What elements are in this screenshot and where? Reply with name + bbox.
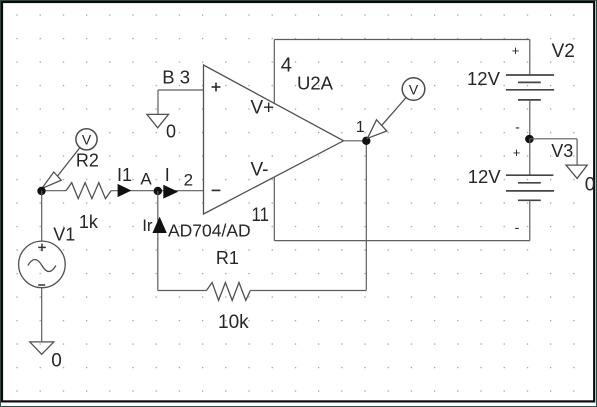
svg-text:I: I [165,165,170,185]
current marker I (arrow) [163,185,178,199]
svg-text:AD704/AD: AD704/AD [168,221,251,241]
label pin 2 [184,170,193,189]
wire: R2 right to pin 2 of op-amp (node A) [111,190,204,192]
label AD704/AD [168,221,251,241]
pin 4 wire (V+ supply) [273,40,275,103]
label I1 [117,165,132,185]
svg-text:1: 1 [356,119,365,136]
wire: R1 left segment [158,290,207,292]
voltage probe at output: lead line [382,98,406,126]
wire: junction to V3 net label [529,138,577,140]
svg-text:0: 0 [585,174,596,195]
sine source V1 - marker [38,284,45,286]
svg-text:B 3: B 3 [162,67,190,88]
svg-text:11: 11 [252,205,270,226]
label 1k (value of R2) [79,212,99,232]
svg-text:12V: 12V [468,166,502,187]
svg-text:I1: I1 [117,165,132,185]
wire: bottom supply rail [274,240,530,242]
battery V2 + marker [512,43,520,58]
svg-text:-: - [515,119,520,135]
wire: R1 right segment to output vertical [250,290,366,292]
node A junction dot [154,187,162,195]
wire: rail down to V2 + terminal [529,40,531,76]
label V- (negative supply pin) [251,160,269,181]
label V2 [552,41,575,62]
ground (right, 0) [566,165,587,178]
wire: node A area, pin 3 input wire [158,89,204,91]
svg-text:R2: R2 [76,150,99,170]
svg-text:2: 2 [184,170,193,189]
svg-text:4: 4 [281,55,292,77]
svg-text:+: + [512,43,520,58]
wire: feedback left vertical (node A down to R1) [157,191,159,291]
wire: output node down to R1 [365,141,367,291]
voltage probe at input node: open arrow tip [42,172,61,189]
wire: node down to V1 [41,191,43,242]
battery V2 plates [506,75,554,100]
svg-text:V: V [82,132,92,148]
svg-text:V: V [409,81,419,97]
op-amp inverting - marker [212,189,221,191]
svg-text:A: A [140,169,152,188]
wire: op-amp output stub [344,140,367,142]
label Ir [142,216,153,235]
label U2A [297,73,334,94]
pin 11 wire (V- supply) [273,177,275,241]
svg-text:-: - [515,219,520,235]
input node junction dot [37,187,45,195]
label I [165,165,170,185]
svg-text:V1: V1 [53,225,75,245]
svg-text:R1: R1 [216,248,239,268]
svg-text:0: 0 [166,122,176,142]
battery V3 + marker [513,145,521,160]
current marker I1 (arrow) [118,184,132,197]
label V1 [53,225,75,245]
label R1 [216,248,239,268]
label A (node A) [140,169,152,188]
svg-text:U2A: U2A [297,73,334,94]
label 12V (value of V3) [468,166,502,187]
battery junction node dot [525,135,534,144]
label pin 1 [356,119,365,136]
op-amp non-inverting + marker [212,83,221,92]
voltage probe at output: circle [402,78,425,101]
wire: stub from pin 3 wire down to ground B [157,90,159,114]
wire: V3 - terminal down to bottom rail [529,200,531,240]
label 10k (value of R1) [218,312,249,333]
svg-text:V2: V2 [552,41,575,62]
label B 3 (net B, pin 3) [162,67,190,88]
voltage probe at output: open arrow tip [368,120,387,139]
wire: V3 net down to ground [576,139,578,165]
svg-text:V-: V- [251,160,269,181]
wire: V2 - terminal down to junction [529,100,531,139]
label pin 4 [281,55,292,77]
svg-text:+: + [513,145,521,160]
voltage probe at input node (R2) circle [76,129,97,150]
svg-text:V3: V3 [551,141,573,161]
wire: V1 bottom to ground [41,288,43,342]
resistor R2 [66,183,111,199]
label V3 [551,141,573,161]
label V+ (positive supply pin) [251,98,275,119]
resistor R1 [207,283,251,301]
label pin 11 [252,205,270,226]
sine source V1 + marker [38,244,46,252]
ground (below V1) [30,342,54,354]
wire: top supply rail [274,39,530,41]
output node junction dot [362,137,370,145]
label 12V (value of V2) [467,68,501,89]
label 0 (ground at B) [166,122,176,142]
sine source V1 waveform [28,260,56,272]
voltage probe at input node: lead line [58,148,80,177]
svg-text:1k: 1k [79,212,99,232]
op-amp U2A triangle [204,65,344,214]
svg-text:V+: V+ [251,98,275,119]
current marker Ir (arrow up) [152,217,166,233]
battery V3 - marker [515,219,520,235]
svg-text:12V: 12V [467,68,501,89]
battery V2 - marker [515,119,520,135]
sine source V1 circle [19,241,66,288]
svg-text:10k: 10k [218,312,249,333]
wire: junction down to V3 + terminal [529,139,531,175]
ground (node B, 0) [147,114,169,127]
battery V3 plates [506,175,554,200]
label 0 (ground right) [585,174,596,195]
label 0 (ground below V1) [51,351,62,372]
label R2 [76,150,99,170]
svg-text:0: 0 [51,351,62,372]
wire: input node to R2 left [42,190,67,192]
svg-text:Ir: Ir [142,216,153,235]
